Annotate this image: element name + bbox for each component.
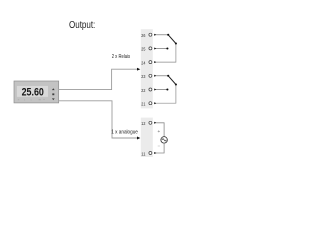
analogue meter circle [161,137,168,144]
button up [52,88,55,90]
svg-text:25: 25 [141,47,145,52]
arrowhead into relay block [137,68,140,71]
terminal 21 [141,102,152,107]
terminal 25 [141,47,152,52]
relay terminal strip [141,29,153,108]
svg-text:21: 21 [141,102,145,107]
svg-text:24: 24 [141,60,145,65]
terminal 26 [141,33,152,38]
plus polarity mark [158,130,160,132]
arrowhead into analogue block [137,137,140,140]
sine glyph [162,139,166,141]
analogue loop wire top from 12 [154,122,164,137]
svg-text:23: 23 [141,74,145,79]
relay 1 switch arm [168,35,176,44]
analogue terminal strip [141,118,153,157]
faint legend marks on bezel [18,99,45,100]
relay 1 common line from 24 [154,42,177,63]
svg-text:2 x Relais: 2 x Relais [112,54,131,60]
wire from device to analogue block [59,101,139,138]
wire from device to relay block [59,69,139,89]
svg-text:22: 22 [141,88,145,93]
analogue loop wire bottom to 11 [154,143,164,154]
minus polarity mark [158,145,160,147]
relay 1 NC line from 26 [154,34,169,36]
svg-text:25.60: 25.60 [22,87,44,99]
relay 2 NO line from 22 [154,88,168,90]
svg-text:12: 12 [141,121,145,126]
device display window [17,86,49,97]
svg-text:1 x analogue: 1 x analogue [111,129,138,135]
svg-text:Output:: Output: [69,20,95,31]
svg-text:11: 11 [141,151,145,156]
terminal 12 [141,121,152,126]
relay 2 NC line from 23 [154,75,169,77]
terminal 11 [141,151,152,156]
terminal 24 [141,60,152,65]
relay 2 common line from 21 [154,83,177,104]
svg-text:26: 26 [141,33,145,38]
button mid [52,93,54,95]
relay 2 switch arm [168,76,176,85]
terminal 23 [141,74,152,79]
terminal 22 [141,88,152,93]
panel meter device bezel [14,81,59,103]
relay 1 NO line from 25 [154,47,168,49]
button down [52,98,55,100]
